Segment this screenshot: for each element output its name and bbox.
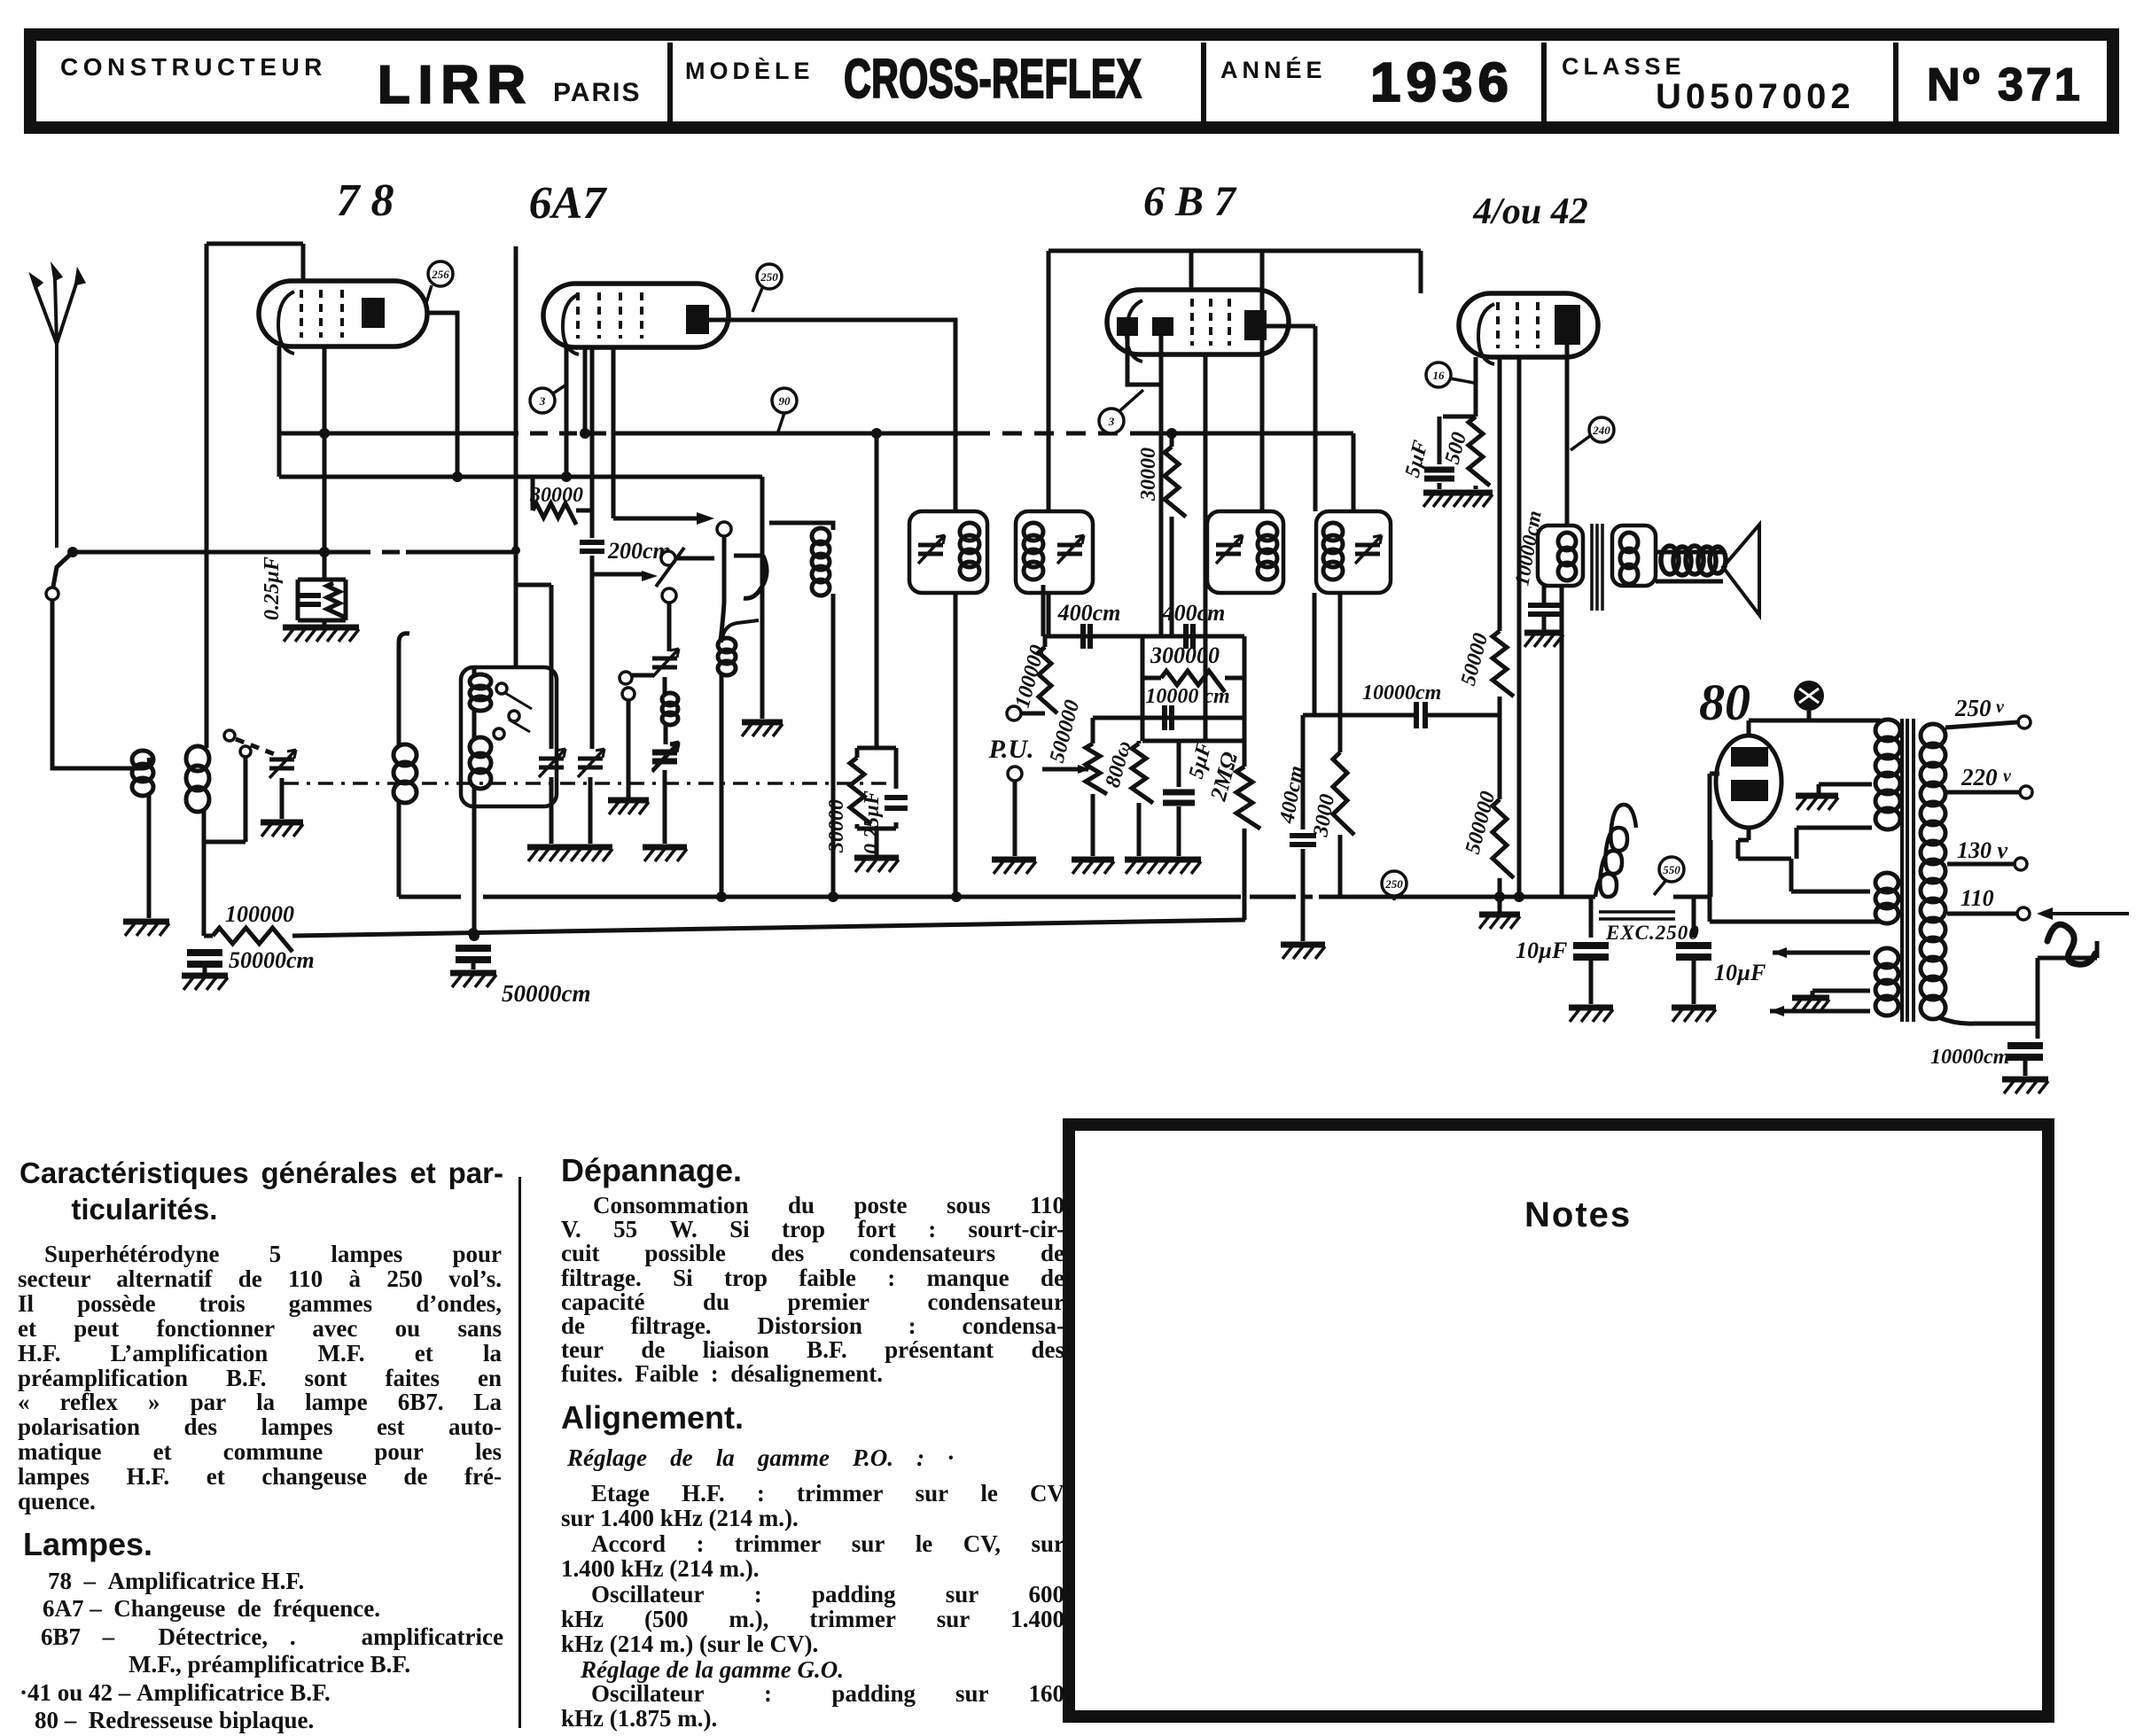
wire 50000cm M to ground (472, 963, 476, 969)
wire AF row y810 (1093, 716, 1244, 720)
band switch contact a (224, 730, 235, 741)
wire 6B7 anode up (1260, 251, 1265, 310)
trimmer IF2 (1057, 535, 1084, 564)
winding W1 HV secondary (1875, 720, 1900, 829)
wire 30000 vertical connections (1170, 433, 1174, 636)
wire 6A7 pin B to CV2 (590, 556, 595, 749)
wire coupling row y807 (1303, 713, 1500, 718)
header divider 4 (1893, 43, 1898, 121)
wire 80 filament loop (1710, 774, 1881, 922)
wire 78 screen to line L2 (277, 346, 282, 477)
line AVC y623 (left) (73, 550, 353, 555)
junction (1514, 891, 1524, 902)
capacitor 200cm (osc grid) (580, 542, 604, 551)
svg-text:400cm: 400cm (1057, 600, 1121, 626)
speaker voice coil (1661, 546, 1726, 575)
output transformer secondary box (1612, 525, 1656, 586)
ref circle 240 (1589, 417, 1614, 442)
line L1 screen bus (dashed a) (501, 432, 612, 436)
wire 10uF right stem (1692, 897, 1696, 938)
ground 400cm right (1281, 945, 1325, 959)
ground antenna trimmer (261, 822, 303, 837)
ref circle 3 at 6A7 (530, 388, 555, 413)
wire osc switch arms (505, 693, 532, 732)
wire 41 cathode node (1443, 357, 1476, 416)
svg-text:50000cm: 50000cm (229, 947, 315, 973)
svg-text:130 v: 130 v (1957, 837, 2008, 863)
wire W3 top lead (1773, 951, 1870, 955)
wire 6B7 top coupling line (1049, 249, 1421, 253)
svg-text:CLASSE: CLASSE (1562, 53, 1686, 80)
wire 6B7 cathode down (1204, 354, 1208, 741)
wire switch linkage (dashed) (236, 739, 277, 755)
ref circle 250 at bus (1382, 871, 1407, 896)
capacitor 10000cm (AC line) (2007, 1046, 2043, 1057)
wire coupling line to 41 top (1419, 251, 1423, 293)
wire 6A7 cathode to L1 (583, 347, 588, 433)
wire 41 anode to output transformer (1565, 345, 1570, 525)
winding W2 rectifier filament (1875, 873, 1898, 923)
ground 10000cm AC (2002, 1079, 2048, 1094)
column 2 reglage GO line (581, 1656, 844, 1684)
svg-text:250: 250 (1954, 695, 1992, 721)
ref circle 550 (1659, 857, 1684, 882)
wire tank hook (734, 556, 767, 598)
resistor 30000 (6A7 osc grid leak) (533, 503, 576, 525)
svg-text:550: 550 (1663, 863, 1680, 876)
wire contact c1 lead (675, 557, 714, 561)
wire trimmer to ground (280, 778, 285, 819)
wire 50000cm L to ground (203, 968, 207, 973)
line L1 screen bus (left part) (279, 432, 501, 436)
bus B+ upper (right) (1319, 895, 1572, 899)
wire coil L7 to bus (397, 801, 401, 897)
coil IF4 (1323, 523, 1343, 580)
svg-text:v: v (1996, 697, 2005, 717)
svg-text:256: 256 (431, 268, 449, 281)
header divider 2 (1201, 43, 1206, 121)
line AVC y623 (right) (406, 550, 514, 555)
svg-text:30000: 30000 (529, 484, 583, 507)
IF transformer can 2 (1016, 511, 1093, 593)
wire 100000 to PU (1021, 636, 1045, 713)
wire callout ref 3 (6A7) (553, 385, 566, 393)
svg-text:7 8: 7 8 (337, 175, 394, 226)
oscillator switch contact c2 (662, 588, 676, 603)
wire bias network frame 78 (298, 580, 346, 626)
coil output transformer secondary (1620, 533, 1638, 584)
resistor 100000 (AVC) (213, 928, 292, 952)
junction bus/IF1 (951, 891, 962, 902)
tube V4 41 ou 42 (amplificatrice BF) (1459, 293, 1598, 364)
coil L7 HF choke (394, 744, 417, 803)
capacitor 50000cm (oscillator) (456, 948, 491, 960)
wire detector row y718 (1043, 634, 1244, 639)
capacitor 10uF (left) (1573, 946, 1609, 957)
resistor 300000 (1161, 671, 1225, 692)
wire 5uF stem (1177, 741, 1181, 787)
output transformer core (1592, 524, 1602, 611)
junction 78 anode/L2 (452, 471, 463, 482)
oscillator switch contact c1 (661, 551, 675, 565)
svg-text:LIRR: LIRR (378, 55, 534, 114)
arrow wiper (642, 571, 658, 581)
wire to voice coil (1656, 552, 1723, 581)
wire bus to choke (1572, 895, 1595, 899)
wire osc block to CV1 (516, 585, 551, 749)
wire padder to coil L5 (663, 677, 667, 695)
ground 1000cm (1524, 633, 1563, 647)
svg-text:30000: 30000 (1137, 448, 1160, 502)
svg-text:250: 250 (760, 270, 778, 284)
wire antenna to coil L1 (52, 600, 149, 768)
IF transformer can 4 (1316, 511, 1391, 593)
wire cathode node row y836 (1142, 739, 1244, 743)
svg-text:16: 16 (1433, 369, 1446, 382)
svg-text:300000: 300000 (1150, 642, 1220, 668)
resistor 30000 (6B7 screen feed) (1165, 447, 1186, 517)
wire tap 110 (1947, 912, 2016, 916)
svg-text:CROSS-REFLEX: CROSS-REFLEX (844, 49, 1142, 110)
ground bias line (742, 722, 783, 736)
capacitor 0.25uF (6A7 screen) (885, 798, 908, 808)
wire 6A7 pin A to L2 (565, 347, 569, 477)
wire antenna switch arm (53, 552, 73, 587)
wire W3 bottom lead (1770, 1009, 1870, 1014)
svg-text:1936: 1936 (1370, 52, 1514, 113)
bus AVC lower (292, 920, 1245, 936)
tube V1 78 (amplificatrice HF) (259, 281, 427, 354)
ground 10uF left (1569, 1008, 1613, 1022)
wire coil L6 to bus (720, 673, 724, 897)
column 2 reglage PO line (567, 1444, 954, 1472)
variable capacitor CV section 1 (539, 749, 565, 777)
wire 10000cm AC to ground (2023, 1061, 2028, 1076)
svg-text:3: 3 (539, 394, 546, 408)
ground CV gang (527, 847, 612, 861)
wire 80 filament to W2 (1738, 840, 1870, 891)
svg-text:Notes: Notes (1524, 1195, 1632, 1234)
wire pilot lamp stem (1807, 711, 1812, 720)
ground antenna coil (123, 922, 169, 936)
svg-text:10000cm: 10000cm (1930, 1046, 2009, 1069)
wire CV3 to ground (663, 770, 667, 844)
resistor 500 (41 cathode) (1469, 416, 1490, 486)
ground 41 cathode (1423, 493, 1493, 507)
antenna switch contact (46, 588, 58, 600)
svg-text:MODÈLE: MODÈLE (685, 57, 815, 84)
svg-text:500000: 500000 (1462, 789, 1501, 856)
line L1 screen bus (right part) (1143, 432, 1353, 436)
coil L1 antenna primary (132, 751, 153, 796)
notes box frame (1069, 1125, 2048, 1717)
tube V2 6A7 (changeuse de frequence) (543, 284, 729, 354)
trimmer oscillator series (652, 743, 679, 772)
junction (1166, 428, 1177, 439)
oscillator switch terminal a (620, 672, 632, 684)
wire 78 cathode down (323, 346, 327, 578)
wire 500000 to bus (1498, 878, 1502, 897)
wire choke to 80 filament (1673, 840, 1711, 897)
svg-text:220: 220 (1961, 764, 1998, 790)
column 1: caracteristiques (19, 1155, 503, 1227)
winding W3 heaters (1875, 948, 1898, 1016)
column 1 paragraph (18, 1242, 502, 1514)
wire contact c2 to padder (667, 603, 672, 651)
wire pot tap arm (1042, 767, 1088, 772)
output transformer primary box (1538, 525, 1583, 586)
svg-text:P.U.: P.U. (987, 735, 1033, 764)
svg-text:800ω: 800ω (1102, 738, 1136, 790)
svg-text:30000: 30000 (825, 799, 848, 853)
svg-text:0.25µF: 0.25µF (861, 790, 884, 854)
wire 30000 to pin line (576, 509, 592, 513)
ref circle 90 (772, 388, 797, 413)
wire callout to ref 256 (425, 285, 432, 306)
capacitor 400cm (right) (1290, 836, 1316, 845)
capacitor 1000cm (1528, 605, 1560, 614)
coil L2 antenna secondary (186, 746, 209, 812)
wire band switch stub (204, 758, 246, 842)
wire 80 anode top (1749, 720, 1881, 736)
wire coil L5 to trimmer (664, 723, 668, 744)
svg-text:90: 90 (779, 394, 791, 408)
junction (319, 547, 330, 557)
wire wiper lead (591, 572, 643, 577)
ref circle 256 at 78 anode (428, 261, 453, 286)
wire CV sections to ground (551, 777, 590, 844)
svg-text:3: 3 (1108, 415, 1115, 428)
coil output transformer primary (1558, 533, 1576, 580)
wire 800ohm connections (1137, 741, 1142, 856)
IF transformer can 3 (1207, 511, 1283, 593)
antenna (32, 268, 83, 548)
wire 10uF left to ground (1589, 961, 1594, 1004)
junction (580, 428, 590, 439)
coil IF1 (960, 523, 979, 580)
wire bus ground stub (1498, 897, 1502, 913)
wire 5uF to ground (1177, 806, 1181, 856)
resistor 30000 (6A7 screen) (850, 758, 871, 824)
wire screen bypass frame (857, 748, 896, 855)
svg-text:10000cm: 10000cm (1510, 509, 1545, 588)
line AVC y623 (dashed) (353, 550, 406, 555)
svg-text:50000cm: 50000cm (502, 980, 591, 1007)
svg-text:50000: 50000 (1457, 631, 1493, 689)
arrow osc anode (697, 512, 714, 525)
resistor 2 Mohm (1236, 767, 1260, 829)
terminal 110 (2017, 907, 2030, 920)
pot arrow (1078, 765, 1090, 774)
wire 6A7 pin B upper (590, 347, 595, 538)
wire tap 130v (1947, 862, 2014, 867)
wire 6B7 anode to IF3 top (1260, 340, 1265, 511)
wire IF1 bottom to bus (954, 593, 958, 897)
trimmer IF3 (1216, 535, 1243, 564)
wire callout ref 3 (6B7) (1119, 390, 1143, 411)
bus B+ upper (crossover dash) (1287, 895, 1319, 899)
wire 400cm right stem (1301, 715, 1306, 829)
trimmer CV antenna (269, 750, 296, 778)
svg-text:10000 cm: 10000 cm (1145, 685, 1229, 708)
coil IF2 (1024, 523, 1043, 580)
wire callout ref 240 (1571, 436, 1590, 450)
wire L2 end to ground (760, 477, 765, 719)
line L1 screen bus (mid part) (612, 432, 971, 436)
wire callout ref 550 (1654, 880, 1666, 895)
wire 6A7 anode to IF1 primary (709, 320, 955, 511)
wire coil L2 to AVC bus (202, 809, 207, 936)
wire ref 250 stem (1392, 896, 1396, 900)
wire output transformer B+ drop (1560, 586, 1564, 897)
variable capacitor CV section 3 (652, 742, 679, 770)
resistor 50000 (41 grid) (1493, 631, 1514, 697)
winding W4 primary (1921, 724, 1945, 1019)
ground potentiometer (1072, 860, 1114, 874)
wire W1 bottom to filament (1797, 828, 1872, 859)
wire 300000 connections (1142, 676, 1244, 681)
wire 3000 connections (1338, 593, 1343, 897)
ground 50000cm mid (450, 973, 496, 987)
wire W3 center tap (1812, 991, 1870, 996)
terminal P.U. 2 (1008, 767, 1022, 781)
trimmer padding oscillator (652, 649, 679, 677)
wire top feed to 78 grid cap (207, 244, 303, 281)
wire 78 anode down to L2 (425, 313, 457, 477)
wire 6B7 anode right (1267, 324, 1315, 329)
wire terminal b to ground (627, 701, 631, 798)
variable capacitor CV section 2 (578, 749, 604, 777)
pilot lamp symbol (1794, 681, 1824, 711)
junction (1494, 891, 1505, 902)
junction antenna / AVC line (67, 547, 78, 557)
column 1 heading Lampes (23, 1526, 152, 1563)
svg-text:EXC.2500: EXC.2500 (1605, 922, 1700, 944)
svg-text:Nº 371: Nº 371 (1927, 59, 2083, 111)
line L2 bus (279, 475, 762, 479)
AC source symbol (2047, 924, 2095, 964)
svg-text:400cm: 400cm (1162, 600, 1226, 626)
transformer core (1902, 719, 1914, 1022)
svg-text:5µF: 5µF (1401, 438, 1433, 479)
wire 41 grid mid (1498, 697, 1502, 799)
coil L3 oscillator (top) (470, 674, 491, 711)
svg-text:80: 80 (1699, 673, 1750, 731)
svg-text:3000: 3000 (1309, 792, 1339, 839)
wire IF2 bottom down (1047, 593, 1051, 636)
ground 78 bias network (283, 627, 359, 642)
wire 10uF left stem (1589, 897, 1594, 938)
wire osc anode line (613, 517, 698, 521)
wire pot connections (1091, 718, 1095, 856)
wire IF4 coil to coupling row (1313, 593, 1317, 715)
wire AC input to primary (1938, 941, 2097, 1024)
wire 6B7 diode 1 (1127, 336, 1161, 385)
wire 41 cathode RC to ground (1439, 416, 1476, 489)
ground W3 center tap (1791, 998, 1829, 1012)
svg-text:0.25µF: 0.25µF (261, 557, 284, 620)
ref circle 3 at 6B7 (1099, 409, 1124, 433)
wire OPT to 1000cm (1542, 586, 1547, 603)
oscillator coil block (461, 667, 557, 806)
capacitor 0.25uF 78 bias (298, 596, 321, 604)
wire W1 center tap (1819, 784, 1872, 794)
svg-text:6A7: 6A7 (529, 178, 608, 229)
capacitor 400cm b (1186, 624, 1193, 649)
wire 10uF right to ground (1692, 961, 1696, 1004)
ground screen bypass (854, 858, 899, 872)
coil L6a oscillator tank (812, 528, 830, 596)
junction (871, 428, 882, 439)
speaker cone (1723, 525, 1759, 615)
choke EXC.2500 (excitation) (1595, 805, 1675, 919)
resistor potentiometer 500000 (1086, 743, 1107, 794)
wire terminal to padder (632, 673, 653, 678)
column 2 heading Alignement (561, 1399, 744, 1436)
resistor 100000 (PU) (1039, 647, 1057, 713)
resistor 3000 (IF4 return) (1333, 752, 1354, 835)
ground W1 center tap (1796, 796, 1838, 810)
column 2 alignement PO block (561, 1481, 1064, 1657)
header divider 1 (667, 43, 673, 121)
junction bus/coil line (716, 891, 727, 902)
tube V5 80 (redresseuse biplaque) (1716, 736, 1781, 828)
svg-text:240: 240 (1592, 424, 1610, 437)
osc switch contact c (494, 728, 504, 739)
wire 41 screen to bus (1517, 357, 1522, 897)
wire row to IF2 base (1041, 585, 1046, 636)
column 2: depannage (561, 1152, 742, 1189)
ground P.U. (992, 860, 1036, 874)
trimmer IF1 (918, 535, 945, 564)
svg-text:U0507002: U0507002 (1656, 77, 1855, 116)
capacitor 10uF (right) (1676, 946, 1711, 957)
ground CV3 (643, 847, 687, 861)
junction tank/bus (828, 891, 838, 902)
capacitor 50000cm (antenna AVC) (187, 953, 222, 964)
ground bus right (1479, 915, 1520, 929)
terminal 130v (2015, 858, 2027, 870)
capacitor 5uF (41 cathode) (1424, 470, 1454, 479)
coil L4 oscillator (bottom) (470, 737, 491, 789)
wire 6B7 diode 2 down (1159, 336, 1164, 636)
wire callout ref 250 (752, 288, 762, 312)
junction pin A/L2 (561, 471, 572, 482)
wire callout ref 90 (778, 413, 784, 432)
tube V3 6B7 (detectrice / MF / BF) (1107, 290, 1289, 362)
wire 6B7 anode to IF4 top (1314, 326, 1318, 511)
wire tap 220v (1947, 790, 2019, 795)
capacitor 10000cm (AF) (1165, 705, 1172, 730)
svg-text:4/ou 42: 4/ou 42 (1472, 191, 1588, 232)
column 1 tube list (19, 1568, 503, 1734)
wire IF2 top to coupling line (1047, 251, 1051, 511)
svg-text:500: 500 (1441, 430, 1471, 467)
wire oscillator coil stem (472, 667, 477, 936)
wire 80 bottom stem (1747, 828, 1751, 840)
ground 10uF right (1672, 1008, 1716, 1022)
coil L5 oscillator coupling (662, 693, 678, 725)
wire screen net vertical (875, 433, 879, 748)
svg-text:v: v (2003, 767, 2012, 786)
junction lower bus / osc (468, 928, 479, 938)
svg-text:110: 110 (1961, 885, 1994, 911)
wire AVC vertical to 78 grid (205, 244, 209, 748)
AC input arrow (2037, 907, 2053, 920)
wire 1000cm to ground (1542, 615, 1547, 631)
bus B+ upper (mid stub) (1250, 895, 1287, 899)
ground oscillator switch (608, 800, 649, 814)
